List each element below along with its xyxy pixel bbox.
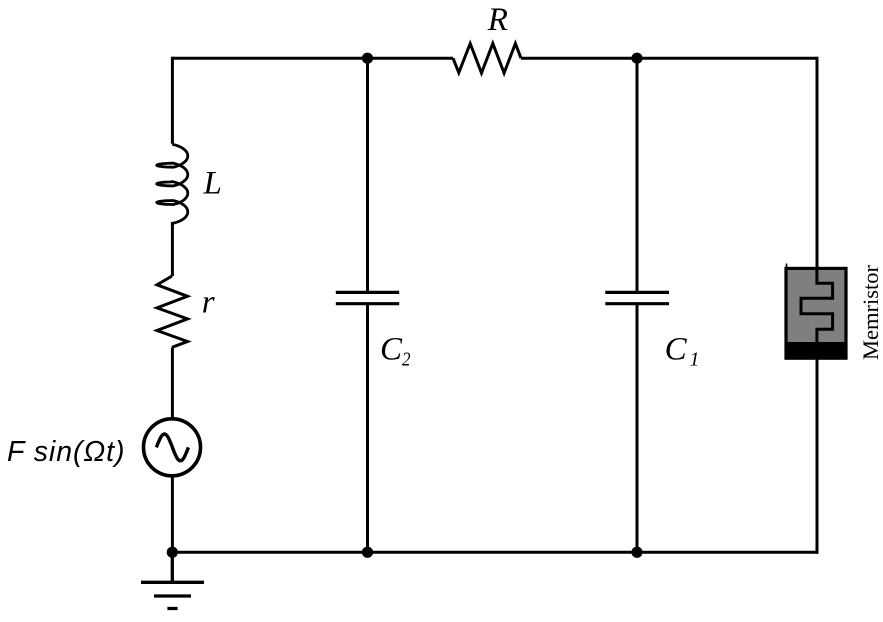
svg-text:r: r	[202, 285, 215, 321]
svg-text:Memristor: Memristor	[858, 265, 883, 360]
wire right vertical lower	[816, 358, 819, 554]
wire bottom horizontal	[172, 551, 818, 554]
memristor bottom electrode	[786, 342, 846, 358]
memristor corner tick	[786, 264, 788, 269]
junction dot top C2	[362, 53, 373, 64]
junction dot bottom C1	[631, 547, 642, 558]
junction dot bottom left	[167, 547, 178, 558]
wire top right	[521, 57, 817, 60]
wire C2 branch upper	[366, 58, 369, 291]
svg-text:C: C	[665, 331, 688, 367]
wire left vertical top	[171, 57, 174, 144]
wire C1 branch upper	[636, 58, 639, 291]
resistor r	[157, 276, 188, 347]
junction dot bottom C2	[362, 547, 373, 558]
svg-text:1: 1	[690, 349, 700, 371]
capacitor C2	[336, 292, 399, 303]
ground	[141, 552, 204, 608]
junction dot top C1	[631, 53, 642, 64]
svg-text:R: R	[487, 2, 508, 38]
svg-text:C: C	[380, 331, 403, 367]
memristor body	[786, 268, 846, 358]
svg-text:L: L	[203, 166, 222, 202]
wire	[171, 222, 174, 276]
svg-text:2: 2	[402, 349, 411, 371]
wire C1 branch lower	[636, 305, 639, 552]
inductor L	[157, 144, 188, 223]
wire	[171, 348, 174, 418]
capacitor C1	[605, 292, 669, 303]
wire right vertical upper	[816, 57, 819, 267]
svg-text:F sin(Ωt): F sin(Ωt)	[7, 436, 125, 468]
memristor meander	[801, 267, 833, 344]
source sine wave	[156, 434, 188, 461]
wire C2 branch lower	[366, 305, 369, 552]
wire	[171, 476, 174, 552]
source V1 circle	[144, 419, 201, 476]
wire top horizontal	[172, 57, 453, 60]
resistor R	[453, 44, 521, 74]
